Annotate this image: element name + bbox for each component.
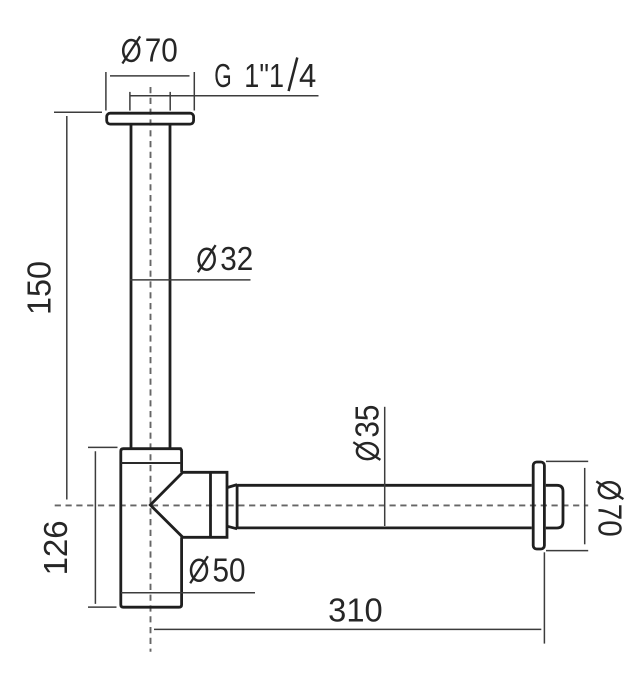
svg-text:1"1: 1"1 bbox=[244, 59, 284, 95]
dimension 310: dimension line bbox=[154, 628, 541, 630]
horizontal outlet pipe Ø35 bottom wall bbox=[237, 527, 532, 530]
dimension Ø70 right: bottom extension line bbox=[546, 550, 588, 552]
dimension Ø70 top: dimension line bbox=[110, 75, 190, 77]
nut separation line bbox=[209, 472, 212, 537]
trap body cup white fill bbox=[121, 449, 182, 608]
dimension Ø70 right: dimension line bbox=[584, 468, 586, 544]
top flange outline bbox=[107, 113, 194, 124]
vertical centerline bbox=[150, 87, 152, 652]
G 1"1/4 left thread tick bbox=[129, 92, 131, 111]
dimension 126: top extension line bbox=[88, 446, 118, 448]
olive taper bottom slant bbox=[227, 526, 237, 529]
body top ring line bbox=[121, 462, 181, 464]
dimension Ø70 right: top extension line bbox=[546, 460, 588, 462]
svg-text:150: 150 bbox=[20, 261, 57, 315]
olive taper top slant bbox=[227, 485, 237, 488]
dimension Ø70 top: right extension line bbox=[193, 72, 195, 111]
pipe end cap outline (left side hidden behind flange) bbox=[546, 485, 563, 528]
G 1"1/4 label bbox=[214, 57, 316, 95]
wall flange outline bbox=[533, 462, 544, 549]
Ø32 leader line bbox=[130, 279, 251, 281]
G 1"1/4 leader line bbox=[130, 95, 319, 97]
svg-text:70: 70 bbox=[591, 504, 628, 537]
svg-text:G: G bbox=[214, 57, 231, 94]
dimension 126: bottom extension line bbox=[88, 606, 117, 608]
Ø35 leader line bbox=[384, 407, 386, 526]
dimension 126: dimension line bbox=[94, 451, 96, 604]
outlet cone and nut outline bbox=[150, 472, 227, 537]
horizontal outlet pipe Ø35 top wall bbox=[237, 484, 532, 487]
dimension 150: dimension line bbox=[66, 116, 68, 500]
svg-text:70: 70 bbox=[145, 32, 178, 69]
svg-text:4: 4 bbox=[299, 57, 316, 94]
dimension 150: top extension line bbox=[54, 111, 102, 113]
wall flange white fill bbox=[533, 462, 544, 549]
dimension Ø70 top: label bbox=[122, 32, 177, 69]
svg-text:126: 126 bbox=[37, 520, 74, 575]
Ø50 label bbox=[190, 552, 245, 589]
dimension 310: right extension line bbox=[543, 552, 545, 643]
top flange white fill bbox=[107, 113, 194, 124]
pipe end cap white fill bbox=[540, 485, 563, 528]
svg-text:310: 310 bbox=[328, 591, 383, 628]
vertical inlet pipe Ø32 right wall bbox=[169, 125, 172, 448]
dimension Ø70 top: left extension line bbox=[105, 72, 107, 111]
horizontal centerline bbox=[55, 504, 589, 506]
trap body cup outline (right wall interrupted by cone) bbox=[121, 449, 182, 608]
vertical inlet pipe Ø32 left wall bbox=[130, 125, 133, 448]
svg-text:50: 50 bbox=[213, 552, 246, 589]
outlet cone and nut white fill bbox=[150, 472, 227, 537]
svg-text:35: 35 bbox=[349, 405, 386, 438]
dimension Ø70 right: label bbox=[591, 481, 628, 536]
G 1"1/4 right thread tick bbox=[169, 92, 171, 111]
Ø32 label bbox=[198, 241, 253, 278]
Ø50 leader line (body bottom ring line extended) bbox=[121, 592, 255, 594]
svg-text:32: 32 bbox=[220, 241, 253, 278]
olive right joint line bbox=[236, 485, 239, 529]
Ø35 label bbox=[349, 405, 386, 460]
